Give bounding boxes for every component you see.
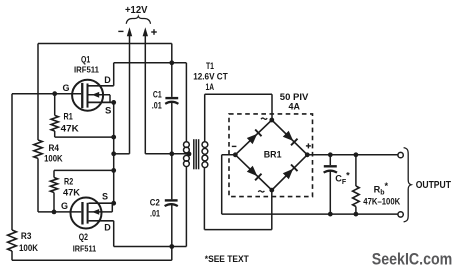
output terminal bottom: [398, 212, 403, 217]
label .01 (C2): [150, 208, 160, 218]
label IRF511 (Q2): [73, 244, 97, 253]
wire R2 top to source rail: [54, 169, 114, 171]
node +12V rail junction: [169, 151, 174, 156]
label T1: [206, 61, 214, 71]
label minus DC: [232, 145, 237, 147]
label Q1: [81, 55, 90, 65]
resistor R2: [50, 170, 57, 212]
svg-text:*SEE TEXT: *SEE TEXT: [205, 253, 249, 264]
svg-text:BR1: BR1: [264, 150, 282, 160]
wire minus lead to source rail: [114, 153, 130, 155]
svg-text:12.6V CT: 12.6V CT: [193, 72, 228, 82]
label 100K (R4): [44, 154, 63, 164]
pin label D (Q1): [104, 75, 111, 85]
wire R3 bottom to Q2 drain node: [12, 247, 172, 261]
svg-text:Q2: Q2: [79, 232, 88, 242]
label Rb*: [374, 181, 389, 196]
svg-text:R2: R2: [64, 177, 73, 187]
wire top rail Q1-drain node: [38, 43, 172, 45]
node bridge DC plus vertex: [305, 152, 310, 157]
wire plus lead to center tap: [145, 153, 172, 155]
watermark SeekIC.com: [372, 251, 453, 269]
svg-text:G: G: [63, 83, 70, 93]
svg-text:G: G: [61, 201, 68, 211]
resistor R4: [34, 44, 42, 212]
svg-text:C2: C2: [150, 197, 160, 207]
svg-text:100K: 100K: [19, 243, 39, 253]
node Rb top junction: [354, 152, 359, 157]
label R2: [64, 177, 73, 187]
svg-text:Q1: Q1: [81, 55, 90, 65]
wire Q1 gate: [12, 93, 81, 95]
power +12V label: [125, 5, 148, 16]
label ~ AC1: [261, 118, 267, 119]
label ~ AC2: [258, 191, 264, 192]
svg-text:CF*: CF*: [335, 170, 350, 185]
node Q2 drain rail junction: [169, 244, 174, 249]
label BR1: [264, 150, 282, 160]
node R1 bottom junction: [111, 135, 116, 140]
wire drain rail upper segment: [171, 44, 173, 97]
svg-text:R3: R3: [21, 231, 32, 241]
resistor R3: [8, 94, 17, 261]
node Cf top junction: [328, 152, 333, 157]
svg-text:47K: 47K: [61, 123, 80, 133]
label 1A: [206, 82, 215, 92]
capacitor Cf: [324, 155, 337, 214]
wire Q2 drain to rail and primary: [114, 221, 187, 247]
node minus feed junction: [111, 151, 116, 156]
label 47K (R1): [61, 123, 80, 133]
transformer T1: [184, 139, 208, 169]
label 50 PIV: [280, 92, 309, 102]
output terminal top: [398, 152, 403, 157]
wire DC plus rail: [307, 154, 398, 156]
power arrow minus lead: [127, 27, 132, 154]
wire primary top lead: [185, 63, 187, 142]
label C1: [153, 90, 162, 100]
svg-text:S: S: [105, 106, 111, 117]
pin label S (Q2): [102, 192, 108, 202]
label 47K-100K: [363, 196, 400, 206]
svg-text:+12V: +12V: [125, 5, 148, 16]
svg-text:47K: 47K: [63, 187, 81, 197]
bridge BR1 diamond wires: [235, 120, 307, 190]
node bridge DC minus vertex: [233, 152, 238, 157]
svg-text:47K–100K: 47K–100K: [363, 196, 400, 206]
label IRF511 (Q1): [74, 66, 99, 75]
diode D1 (left to top): [247, 130, 262, 145]
wire secondary top lead to bridge AC1: [205, 94, 272, 142]
power arrow plus lead: [143, 27, 148, 154]
svg-text:.01: .01: [152, 100, 162, 110]
transistor Q2: [71, 198, 114, 229]
wire secondary bottom lead to bridge AC2: [204, 168, 271, 230]
label plus DC: [306, 143, 311, 148]
resistor R1: [51, 94, 58, 137]
label 100K (R3): [19, 243, 39, 253]
label 47K (R2): [63, 187, 81, 197]
node center tap junction: [187, 152, 192, 157]
wire R1 bottom to source rail: [55, 136, 114, 138]
pin label G (Q1): [63, 83, 70, 93]
node Q1 gate / R1 junction: [52, 91, 57, 96]
label C2: [150, 197, 160, 207]
svg-text:IRF511: IRF511: [74, 66, 99, 75]
svg-text:SeekIC.com: SeekIC.com: [372, 251, 453, 269]
svg-text:R1: R1: [64, 112, 73, 122]
wire DC minus rail: [222, 155, 398, 214]
label R4: [49, 143, 60, 153]
transistor Q1: [72, 80, 114, 111]
wire rail center segment (+12V node): [171, 102, 173, 199]
svg-text:.01: .01: [150, 208, 160, 218]
svg-text:R4: R4: [49, 143, 60, 153]
svg-text:OUTPUT: OUTPUT: [416, 180, 451, 191]
label R1: [64, 112, 73, 122]
wire primary bottom lead: [185, 167, 187, 247]
node Q1 drain rail junction: [169, 60, 174, 65]
diode D2 (top to right): [283, 131, 298, 146]
power supply brace: [126, 16, 150, 24]
svg-text:50 PIV: 50 PIV: [280, 92, 309, 102]
node Rb bottom junction: [354, 212, 359, 217]
diode D3 (left to bottom): [247, 166, 262, 181]
label 12.6V CT: [193, 72, 228, 82]
node bridge AC1 vertex: [269, 118, 274, 123]
svg-text:Rb*: Rb*: [374, 181, 389, 196]
node Q2 gate / R2 junction: [52, 210, 57, 215]
label R3: [21, 231, 32, 241]
power minus polarity sign: [118, 30, 123, 32]
wire Q1 drain to rail: [114, 63, 187, 86]
node R2 top junction: [111, 168, 116, 173]
node bridge AC2 vertex: [269, 188, 274, 193]
label OUTPUT: [416, 180, 451, 191]
wire Q2 gate: [38, 211, 81, 213]
svg-text:IRF511: IRF511: [73, 244, 97, 253]
diode D4 (bottom to right): [283, 165, 298, 180]
pin label S (Q1): [105, 106, 111, 117]
node Q2 source junction: [111, 201, 116, 206]
resistor Rb: [353, 155, 360, 214]
label 4A: [289, 102, 301, 112]
svg-text:1A: 1A: [206, 82, 215, 92]
wire center tap: [172, 153, 189, 155]
wire rail lower segment (Q2 drain node): [171, 204, 173, 246]
svg-text:100K: 100K: [44, 154, 63, 164]
svg-text:S: S: [102, 192, 108, 202]
wire source rail: [113, 102, 115, 203]
svg-text:D: D: [104, 223, 111, 233]
note *SEE TEXT: [205, 253, 249, 264]
svg-text:D: D: [104, 75, 111, 85]
capacitor C1: [165, 98, 178, 104]
svg-text:4A: 4A: [289, 102, 301, 112]
power plus polarity sign: [151, 29, 157, 35]
pin label D (Q2): [104, 223, 111, 233]
label .01 (C1): [152, 100, 162, 110]
label Cf*: [335, 170, 350, 185]
pin label G (Q2): [61, 201, 68, 211]
node Cf bottom junction: [328, 212, 333, 217]
node Q1 source junction: [111, 100, 116, 105]
output brace: [404, 148, 412, 222]
svg-text:T1: T1: [206, 61, 214, 71]
label Q2: [79, 232, 88, 242]
svg-text:C1: C1: [153, 90, 162, 100]
capacitor C2: [165, 200, 178, 206]
bridge BR1 dashed outline: [229, 114, 313, 197]
